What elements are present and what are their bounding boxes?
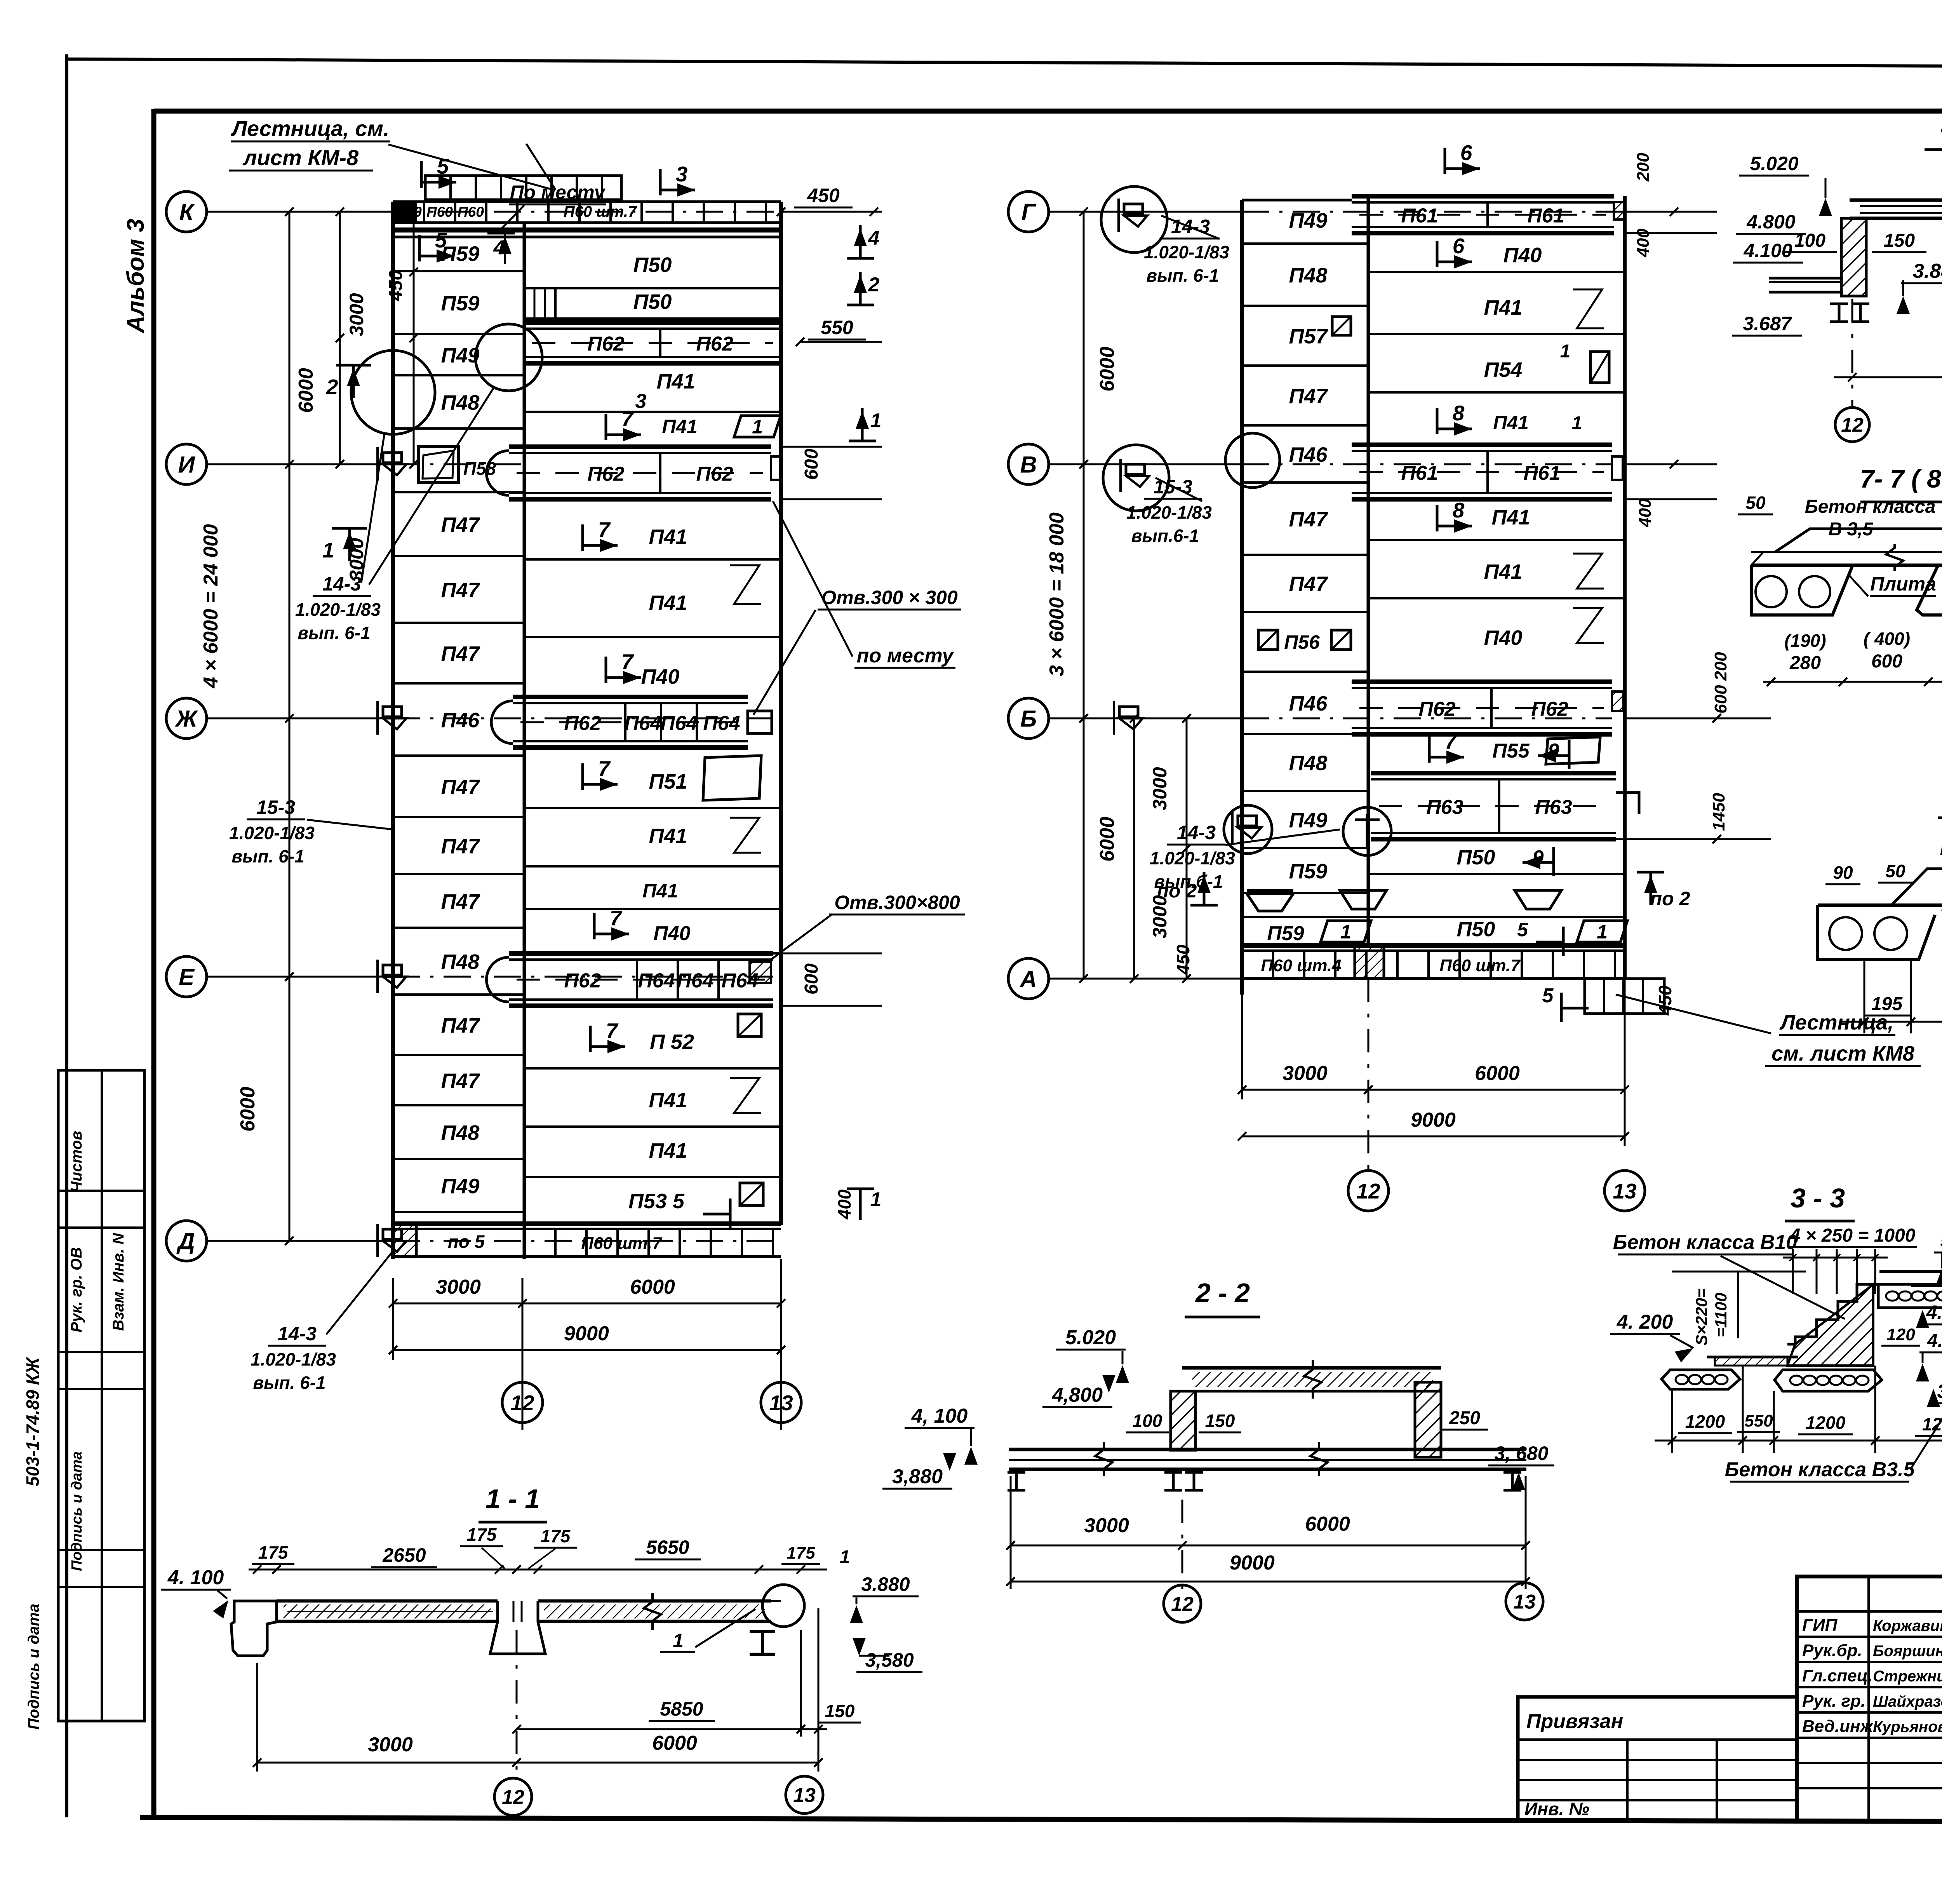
svg-text:175: 175 xyxy=(258,1542,289,1563)
svg-text:6000: 6000 xyxy=(1475,1062,1520,1085)
svg-text:4.800: 4.800 xyxy=(1746,211,1795,233)
section 1-1 slab right xyxy=(538,1599,771,1603)
section 4-4 left slab stub xyxy=(1769,277,1843,280)
center plan left column rows xyxy=(1242,242,1368,245)
svg-text:S×220=: S×220= xyxy=(1692,1288,1711,1345)
svg-text:см. лист КМ8: см. лист КМ8 xyxy=(1771,1042,1914,1065)
svg-text:Альбом 3: Альбом 3 xyxy=(122,219,149,334)
svg-text:П41: П41 xyxy=(649,824,687,848)
section 3-3 steps xyxy=(1787,1284,1878,1344)
title block small left table xyxy=(1518,1697,1797,1821)
svg-text:3000: 3000 xyxy=(346,293,367,336)
svg-text:П49: П49 xyxy=(1289,209,1328,232)
svg-text:450: 450 xyxy=(1655,985,1675,1016)
svg-text:П46: П46 xyxy=(1289,692,1328,715)
svg-text:П63: П63 xyxy=(1426,796,1463,819)
svg-text:П60 шт.7: П60 шт.7 xyxy=(564,203,637,220)
svg-text:175: 175 xyxy=(787,1543,815,1563)
center plan vertical dim 6000 xyxy=(1133,718,1135,979)
svg-text:550: 550 xyxy=(821,317,853,338)
svg-text:П64: П64 xyxy=(638,970,675,992)
svg-text:П51: П51 xyxy=(649,770,687,793)
svg-text:Привязан: Привязан xyxy=(1526,1710,1623,1733)
section 3-3 lower left strip xyxy=(1715,1357,1787,1366)
svg-text:П61: П61 xyxy=(1401,462,1438,484)
svg-text:вып. 6-1: вып. 6-1 xyxy=(1146,265,1219,286)
svg-text:200: 200 xyxy=(1711,652,1730,681)
svg-text:400: 400 xyxy=(1636,498,1655,528)
svg-text:2: 2 xyxy=(326,375,338,399)
left plan right side dim 450 xyxy=(781,211,882,213)
svg-text:2650: 2650 xyxy=(382,1544,426,1566)
svg-text:П47: П47 xyxy=(441,890,481,913)
left plan axis circle K xyxy=(166,192,207,232)
svg-text:вып.6-1: вып.6-1 xyxy=(1131,526,1199,546)
svg-text:Бояршинов: Бояршинов xyxy=(1873,1643,1942,1660)
svg-text:503-1-74.89 КЖ: 503-1-74.89 КЖ xyxy=(23,1357,43,1486)
left plan band П62 П62 first xyxy=(524,320,781,325)
svg-text:6: 6 xyxy=(1460,141,1472,165)
svg-text:Ж: Ж xyxy=(174,706,198,732)
svg-text:Е: Е xyxy=(179,964,195,990)
left plan band П62 П64 П64 П64 at Е xyxy=(509,951,773,956)
section 2-2 upper box top slab xyxy=(1182,1366,1441,1370)
window box П58 xyxy=(419,447,458,483)
svg-text:9000: 9000 xyxy=(1230,1552,1275,1574)
svg-text:1.020-1/83: 1.020-1/83 xyxy=(251,1349,336,1369)
svg-text:1200: 1200 xyxy=(1806,1413,1846,1433)
svg-text:15-3: 15-3 xyxy=(256,796,295,818)
center plan band П61 П61 top xyxy=(1352,194,1614,199)
svg-text:Взам. Инв. N: Взам. Инв. N xyxy=(110,1233,127,1331)
svg-text:П50: П50 xyxy=(1457,846,1495,869)
center plan stairs below А xyxy=(1585,979,1664,1014)
svg-text:П59: П59 xyxy=(1289,860,1328,883)
svg-text:П40: П40 xyxy=(653,922,690,945)
section mark 2 up xyxy=(336,364,371,367)
svg-text:по 2: по 2 xyxy=(1157,880,1197,902)
left plan vertical dimension line 3000s xyxy=(413,212,415,464)
svg-text:Чистов: Чистов xyxy=(68,1131,85,1193)
section 4-4 circle 12 xyxy=(1835,408,1869,442)
svg-text:Бетон класса: Бетон класса xyxy=(1805,496,1936,517)
svg-text:8: 8 xyxy=(1453,401,1465,425)
left plan row П50 second xyxy=(555,317,781,320)
svg-text:П61: П61 xyxy=(1527,205,1564,227)
svg-text:3.687: 3.687 xyxy=(1743,313,1792,334)
center plan П56 squares row xyxy=(1258,630,1278,650)
svg-text:4.100: 4.100 xyxy=(1927,1331,1942,1351)
axis flag Е xyxy=(383,965,402,975)
svg-text:П54: П54 xyxy=(1484,358,1523,381)
svg-text:П41: П41 xyxy=(649,1139,687,1162)
left plan row П41 h xyxy=(524,1176,781,1178)
svg-text:П47: П47 xyxy=(441,1014,481,1037)
section flag 3 top xyxy=(659,169,662,195)
svg-text:Коржавина: Коржавина xyxy=(1873,1617,1942,1634)
left plan row П41 e xyxy=(524,865,781,868)
svg-text:К: К xyxy=(179,199,195,225)
svg-text:3000: 3000 xyxy=(1282,1062,1328,1085)
svg-text:вып. 6-1: вып. 6-1 xyxy=(298,623,370,643)
center plan axis circle А xyxy=(1008,958,1049,999)
left plan wall verticals xyxy=(391,202,395,1259)
svg-text:100: 100 xyxy=(1133,1411,1162,1431)
section 7-7 right slab xyxy=(1917,565,1942,615)
svg-text:7: 7 xyxy=(598,517,611,542)
svg-text:П49: П49 xyxy=(441,1175,480,1198)
center plan band П63 П63 xyxy=(1371,771,1616,775)
left plan row П41 d xyxy=(524,636,781,638)
svg-text:600: 600 xyxy=(1871,651,1902,672)
svg-text:П56: П56 xyxy=(1284,631,1320,653)
svg-text:4 × 6000 = 24 000: 4 × 6000 = 24 000 xyxy=(200,524,222,688)
svg-text:3.880: 3.880 xyxy=(1913,260,1942,282)
svg-text:4.800: 4.800 xyxy=(1926,1301,1942,1323)
svg-text:4: 4 xyxy=(868,227,880,249)
inner frame xyxy=(151,109,157,1818)
svg-text:1: 1 xyxy=(1572,413,1582,434)
section 3-3 upper slab right xyxy=(1879,1270,1942,1273)
svg-text:П63: П63 xyxy=(1535,796,1572,819)
section 2-2 upper box left wall xyxy=(1171,1391,1195,1450)
svg-text:Отв.300 × 300: Отв.300 × 300 xyxy=(821,587,957,608)
svg-text:3,880: 3,880 xyxy=(892,1465,943,1488)
svg-text:П61: П61 xyxy=(1523,462,1560,484)
left plan row П41 b xyxy=(605,414,607,440)
center plan axis lines xyxy=(1049,211,1242,213)
svg-text:6000: 6000 xyxy=(630,1276,675,1298)
svg-text:П47: П47 xyxy=(441,513,481,537)
svg-text:3000: 3000 xyxy=(1149,767,1171,810)
svg-text:1: 1 xyxy=(870,409,882,432)
section 2-2 I-beams xyxy=(1008,1471,1025,1474)
svg-text:4. 200: 4. 200 xyxy=(1617,1311,1673,1333)
axis flag К filled xyxy=(395,202,416,221)
svg-text:12: 12 xyxy=(502,1786,524,1809)
svg-text:4 × 250 = 1000: 4 × 250 = 1000 xyxy=(1790,1225,1916,1246)
svg-text:по 5: по 5 xyxy=(448,1232,485,1252)
left plan vertical dimension line 24000 xyxy=(289,212,291,1241)
section 9-9 topping xyxy=(1892,869,1942,905)
svg-text:6000: 6000 xyxy=(1096,347,1119,392)
big detail circle on axis И area xyxy=(351,350,435,434)
center plan circle В left wall xyxy=(1225,433,1280,488)
center plan row П41 b xyxy=(1436,408,1439,434)
svg-text:П47: П47 xyxy=(441,578,481,602)
left plan top plate band П60 xyxy=(393,200,781,203)
svg-text:1450: 1450 xyxy=(1709,793,1728,831)
svg-text:1.020-1/83: 1.020-1/83 xyxy=(1126,502,1212,523)
svg-text:1200: 1200 xyxy=(1685,1411,1725,1432)
svg-text:3,580: 3,580 xyxy=(865,1649,914,1671)
svg-text:Вед.инж.: Вед.инж. xyxy=(1802,1717,1878,1736)
left plan axis lines xyxy=(207,211,393,213)
left plan bottom band П60 xyxy=(393,1221,781,1226)
axis flag И xyxy=(383,453,402,463)
svg-text:2 - 2: 2 - 2 xyxy=(1195,1278,1250,1308)
svg-text:П48: П48 xyxy=(1289,752,1328,775)
center plan axis flag В xyxy=(1126,464,1145,474)
left plan column circle 13 xyxy=(761,1382,801,1423)
svg-text:П62: П62 xyxy=(696,333,733,355)
svg-text:4.100: 4.100 xyxy=(1743,240,1792,261)
left plan left column rows xyxy=(393,270,524,272)
center plan big circle at Г xyxy=(1101,186,1167,253)
svg-text:280: 280 xyxy=(1789,653,1821,673)
svg-text:П47: П47 xyxy=(441,1070,481,1093)
section 4-4 left wall xyxy=(1841,218,1866,296)
svg-text:1: 1 xyxy=(752,416,763,438)
center plan row П40 top xyxy=(1368,271,1625,273)
svg-text:П60: П60 xyxy=(426,204,453,220)
svg-text:1: 1 xyxy=(322,538,334,562)
center plan axis circle В xyxy=(1008,444,1049,484)
center plan row П41 c xyxy=(1368,539,1625,541)
center plan band П61 П61 mid xyxy=(1352,442,1612,447)
section 7-7 topping xyxy=(1775,529,1942,552)
svg-text:Лестница, см.: Лестница, см. xyxy=(230,116,389,141)
svg-text:1: 1 xyxy=(840,1547,850,1568)
svg-text:П62: П62 xyxy=(1418,698,1455,721)
section 4-4 I-beams xyxy=(1830,303,1848,305)
svg-text:В: В xyxy=(1020,452,1037,478)
svg-text:600: 600 xyxy=(1711,685,1730,714)
left plan row П41 f xyxy=(524,908,781,910)
left plan top band thick line xyxy=(393,228,781,233)
section 9-9 slab xyxy=(1818,904,1942,907)
svg-text:14-3: 14-3 xyxy=(1177,822,1216,843)
svg-text:П58: П58 xyxy=(463,458,496,479)
svg-text:2: 2 xyxy=(868,273,880,296)
left plan band П62 П62 second xyxy=(509,444,771,449)
center plan big circle at В xyxy=(1103,445,1169,511)
section 7-7 slab top line xyxy=(1751,564,1942,567)
svg-text:200: 200 xyxy=(1634,153,1653,182)
center plan axis flag Б xyxy=(1119,707,1138,717)
center plan axis circle Б xyxy=(1008,698,1049,739)
svg-text:П60: П60 xyxy=(458,204,484,220)
left plan stair strip xyxy=(425,176,621,200)
svg-text:Подпись и дата: Подпись и дата xyxy=(69,1451,85,1571)
center plan row П54 xyxy=(1368,391,1625,394)
svg-text:П41: П41 xyxy=(649,525,687,549)
svg-text:4,800: 4,800 xyxy=(1052,1384,1103,1406)
center plan axis flag Г xyxy=(1124,204,1143,214)
svg-text:П41: П41 xyxy=(662,416,698,437)
svg-text:1: 1 xyxy=(673,1630,684,1651)
center plan flag 6 top xyxy=(1444,148,1446,174)
svg-text:П60: П60 xyxy=(395,204,422,220)
left plan row П40 b xyxy=(524,952,781,955)
svg-text:1.020-1/83: 1.020-1/83 xyxy=(1150,848,1235,868)
svg-text:3000: 3000 xyxy=(436,1276,481,1298)
svg-text:6000: 6000 xyxy=(295,368,317,413)
title block signature table xyxy=(1797,1610,1942,1613)
svg-text:4, 100: 4, 100 xyxy=(911,1405,968,1427)
svg-text:4. 100: 4. 100 xyxy=(167,1566,224,1589)
section 1-1 dims bottom xyxy=(516,1630,518,1772)
svg-text:Стрежнин: Стрежнин xyxy=(1873,1668,1942,1685)
svg-text:5: 5 xyxy=(435,228,447,252)
svg-text:12: 12 xyxy=(510,1391,534,1415)
svg-text:5: 5 xyxy=(1542,984,1554,1007)
svg-text:3: 3 xyxy=(635,390,647,413)
svg-text:П62: П62 xyxy=(1531,698,1568,721)
left plan row П41 a xyxy=(524,411,781,413)
center plan П57 small square xyxy=(1332,317,1351,335)
section 3-3 lower hollow slab xyxy=(1775,1370,1882,1391)
svg-text:Г: Г xyxy=(1021,199,1037,225)
svg-text:П46: П46 xyxy=(1289,443,1328,467)
svg-text:П53 5: П53 5 xyxy=(628,1190,685,1213)
svg-text:1: 1 xyxy=(1560,341,1571,362)
svg-text:П47: П47 xyxy=(441,835,481,858)
svg-text:1.020-1/83: 1.020-1/83 xyxy=(295,599,381,620)
section flag 5 top xyxy=(420,161,423,188)
svg-text:1 - 1: 1 - 1 xyxy=(486,1484,540,1514)
left plan row П50 first xyxy=(524,287,781,289)
svg-text:9000: 9000 xyxy=(564,1322,609,1345)
svg-text:П60 шт.4: П60 шт.4 xyxy=(1261,956,1341,975)
section 2-2 lower slab xyxy=(1009,1448,1526,1451)
section 2-2 circle 13 xyxy=(1506,1583,1543,1620)
svg-text:П49: П49 xyxy=(441,344,480,367)
svg-text:Б: Б xyxy=(1020,706,1037,732)
svg-text:П64: П64 xyxy=(703,712,740,735)
svg-text:7: 7 xyxy=(621,650,634,674)
svg-text:П 52: П 52 xyxy=(650,1030,694,1054)
svg-text:7: 7 xyxy=(610,906,623,930)
page outer border xyxy=(65,54,68,1817)
axis flag Ж xyxy=(383,707,402,717)
svg-text:6: 6 xyxy=(1453,234,1465,258)
svg-text:П41: П41 xyxy=(649,591,687,615)
svg-text:6000: 6000 xyxy=(652,1732,697,1754)
svg-text:П41: П41 xyxy=(642,880,678,902)
svg-text:Шайхразова: Шайхразова xyxy=(1873,1693,1942,1710)
svg-text:7: 7 xyxy=(621,407,634,431)
svg-text:А: А xyxy=(1019,966,1037,992)
left plan axis circle Д xyxy=(166,1221,207,1261)
svg-text:6000: 6000 xyxy=(1305,1513,1350,1535)
svg-text:вып. 6-1: вып. 6-1 xyxy=(231,846,304,866)
svg-text:П61: П61 xyxy=(1401,205,1438,227)
svg-text:Отв.300×800: Отв.300×800 xyxy=(834,892,960,913)
section 2-2 dims xyxy=(1010,1476,1012,1589)
left plan row П41 g xyxy=(524,1125,781,1128)
svg-text:400: 400 xyxy=(834,1189,854,1219)
center plan row П41 d xyxy=(1368,597,1625,599)
svg-text:6000: 6000 xyxy=(1096,817,1119,862)
svg-text:5.020: 5.020 xyxy=(1750,153,1798,174)
center plan column circle 13 xyxy=(1604,1171,1645,1211)
svg-text:П40: П40 xyxy=(641,665,680,688)
svg-text:13: 13 xyxy=(793,1784,816,1807)
svg-text:П62: П62 xyxy=(564,970,601,992)
svg-text:175: 175 xyxy=(467,1524,497,1545)
svg-text:П41: П41 xyxy=(657,370,695,393)
center plan bottom dims xyxy=(1241,995,1243,1099)
svg-text:П48: П48 xyxy=(1289,264,1328,287)
svg-text:П62: П62 xyxy=(587,463,624,486)
svg-text:лист КМ-8: лист КМ-8 xyxy=(242,145,359,170)
svg-text:Рук.бр.: Рук.бр. xyxy=(1802,1641,1862,1660)
center plan row П55 xyxy=(1428,736,1431,763)
svg-text:Инв. №: Инв. № xyxy=(1524,1799,1589,1819)
svg-text:50: 50 xyxy=(1745,493,1766,513)
svg-text:1.020-1/83: 1.020-1/83 xyxy=(229,823,315,843)
section 1-1 slab left xyxy=(277,1599,498,1603)
svg-text:12: 12 xyxy=(1841,414,1864,437)
svg-text:5: 5 xyxy=(1517,919,1528,941)
section 1-1 circle 13 xyxy=(786,1776,823,1813)
svg-text:13: 13 xyxy=(1613,1179,1636,1203)
svg-text:7: 7 xyxy=(606,1019,619,1043)
svg-text:8: 8 xyxy=(1453,498,1465,522)
svg-text:( 400): ( 400) xyxy=(1864,629,1910,649)
svg-text:14-3: 14-3 xyxy=(322,573,361,595)
svg-text:195: 195 xyxy=(1871,994,1903,1014)
section 7-7 left slab xyxy=(1751,565,1853,615)
svg-text:150: 150 xyxy=(1884,230,1915,251)
svg-text:П49: П49 xyxy=(1289,809,1328,832)
svg-text:Бетон класса: Бетон класса xyxy=(1940,837,1942,859)
center plan band П62 П62 xyxy=(1352,679,1612,684)
svg-text:5. 100: 5. 100 xyxy=(1940,1230,1942,1251)
svg-text:Бетон класса В10: Бетон класса В10 xyxy=(1613,1231,1798,1254)
svg-text:П64: П64 xyxy=(660,712,697,735)
svg-text:Бетон класса В3.5: Бетон класса В3.5 xyxy=(1725,1458,1915,1481)
section 4-4 top slab xyxy=(1850,199,1942,202)
svg-text:150: 150 xyxy=(825,1701,855,1721)
svg-text:600: 600 xyxy=(801,449,822,480)
center plan axis circle Г xyxy=(1008,192,1049,232)
svg-text:13: 13 xyxy=(1513,1591,1536,1613)
svg-text:1: 1 xyxy=(1597,921,1608,943)
axis flag Д xyxy=(383,1229,402,1239)
svg-text:550: 550 xyxy=(1744,1411,1773,1430)
center plan row П50 b trapezoid row xyxy=(1242,916,1625,918)
section 2-2 upper box right wall xyxy=(1415,1382,1441,1457)
svg-text:П62: П62 xyxy=(587,333,624,355)
svg-text:1: 1 xyxy=(870,1188,882,1211)
svg-text:5.020: 5.020 xyxy=(1065,1326,1116,1349)
svg-text:1: 1 xyxy=(1340,921,1351,943)
center plan row П41 a xyxy=(1368,333,1625,335)
left plan band П62 П64 П64 П64 at Ж xyxy=(513,695,748,699)
svg-text:вып. 6-1: вып. 6-1 xyxy=(253,1373,325,1393)
svg-text:3.880: 3.880 xyxy=(1937,1380,1942,1402)
svg-text:П62: П62 xyxy=(696,463,733,486)
svg-text:ГИП: ГИП xyxy=(1802,1616,1838,1635)
svg-text:П57: П57 xyxy=(1289,325,1329,348)
svg-text:3000: 3000 xyxy=(1084,1514,1129,1537)
svg-text:600: 600 xyxy=(801,963,822,995)
svg-text:9000: 9000 xyxy=(1411,1109,1456,1131)
svg-text:13: 13 xyxy=(769,1391,793,1415)
svg-text:П64: П64 xyxy=(624,712,661,735)
svg-text:В 3,5: В 3,5 xyxy=(1829,519,1874,540)
svg-text:П47: П47 xyxy=(1289,573,1329,596)
svg-text:П48: П48 xyxy=(441,1121,480,1144)
section 1-1 middle pier xyxy=(490,1601,545,1654)
svg-text:П50: П50 xyxy=(633,253,672,277)
svg-text:12: 12 xyxy=(1356,1179,1380,1203)
svg-text:П48: П48 xyxy=(441,950,480,974)
left plan vertical dimension line 6000s xyxy=(339,212,341,464)
section 1-1 left pier xyxy=(231,1601,277,1656)
